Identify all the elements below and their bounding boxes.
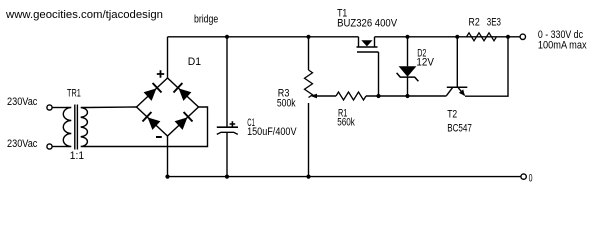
capacitor C1 top plate (217, 126, 238, 128)
svg-text:D1: D1 (188, 56, 201, 68)
terminal 230Vac bottom (47, 144, 52, 149)
T1 source rise (374, 37, 376, 47)
transformer core (74, 105, 76, 150)
svg-text:TR1: TR1 (67, 87, 81, 99)
svg-text:560k: 560k (337, 117, 355, 129)
capacitor C1 bottom plate (217, 132, 238, 134)
svg-text:3E3: 3E3 (487, 17, 501, 29)
transistor T2 (446, 37, 467, 96)
R3 wiper arrow (311, 94, 318, 99)
wire bridge bottom vertex to bottom rail (167, 136, 169, 177)
junction T2 base rail (455, 35, 459, 39)
transformer TR1 primary winding (63, 108, 71, 147)
terminal output positive (520, 34, 525, 39)
svg-text:150uF/400V: 150uF/400V (247, 126, 297, 138)
svg-text:0: 0 (529, 173, 533, 185)
svg-text:230Vac: 230Vac (7, 96, 38, 108)
svg-text:R2: R2 (469, 17, 480, 29)
junction gate node (376, 94, 380, 98)
svg-text:230Vac: 230Vac (7, 138, 38, 150)
T1 substrate arrow (361, 40, 372, 46)
svg-text:500k: 500k (277, 98, 296, 110)
svg-text:12V: 12V (416, 57, 434, 69)
zener D2 bottom lead (407, 77, 409, 96)
terminal 230Vac top (47, 105, 52, 110)
bridge diode D1d (bottom-right) (175, 112, 193, 130)
T1 gate lead (378, 52, 380, 96)
wire terminal to primary bottom (52, 146, 66, 148)
wire secondary bottom to under-bridge to right vertex riser (87, 107, 208, 147)
T2 base bar (447, 86, 468, 88)
wire secondary top to bridge left vertex (87, 106, 137, 109)
T2 base lead (456, 37, 458, 88)
bridge diode D1c (bottom-left) (143, 112, 161, 130)
junction C1 top rail (225, 35, 229, 39)
transformer TR1 secondary winding (81, 108, 88, 147)
junction R2 right rail (506, 35, 510, 39)
bridge diamond D1 outline (137, 78, 199, 136)
minus sign at bridge - output (156, 136, 162, 138)
junction bottom rail at bridge (165, 175, 169, 179)
svg-text:100mA max: 100mA max (538, 40, 587, 52)
bridge diode D1b (right-top) (174, 83, 192, 101)
resistor R2 body (467, 33, 497, 41)
wire R1 right to T2 collector diag (366, 95, 446, 97)
potentiometer R3 top lead (308, 37, 310, 70)
wire top rail right segment (source side) (375, 36, 520, 38)
junction D2 bottom node (405, 94, 409, 98)
svg-text:T2: T2 (447, 109, 457, 121)
wire top rail left segment (drain side) (168, 36, 359, 38)
T2 collector diagonal (446, 88, 452, 96)
capacitor C1 plus sign (230, 121, 236, 127)
T1 channel bar (357, 46, 378, 48)
junction R3 bottom rail (306, 175, 310, 179)
wire terminal to primary top (52, 107, 66, 109)
mosfet T1 (357, 37, 379, 96)
wire bridge top vertex to top rail (167, 37, 169, 78)
zener D2 body (397, 66, 419, 81)
wire bottom rail (168, 176, 521, 178)
capacitor C1 bottom lead (226, 133, 228, 177)
T1 drain drop (358, 37, 360, 47)
T2 emitter diagonal (458, 88, 464, 96)
svg-text:www.geocities.com/tjacodesign: www.geocities.com/tjacodesign (5, 9, 163, 21)
terminal output zero (521, 174, 526, 179)
junction C1 bottom rail (225, 175, 229, 179)
T1 gate bar (357, 51, 379, 53)
svg-text:1:1: 1:1 (70, 150, 84, 162)
svg-text:bridge: bridge (194, 14, 218, 26)
resistor R3 bottom lead (308, 103, 310, 177)
wire wiper to R1 (317, 95, 337, 97)
junction D2 top rail (405, 35, 409, 39)
capacitor C1 top lead (226, 37, 228, 127)
wire T2 emitter to output loop (465, 37, 508, 96)
bridge diode D1a (left-top) (144, 83, 162, 101)
zener D2 top lead (407, 37, 409, 67)
junction R3 top rail (306, 35, 310, 39)
plus sign at bridge + output (157, 70, 164, 77)
svg-text:BC547: BC547 (447, 123, 472, 135)
T2 emitter arrow (459, 89, 465, 96)
resistor R3 body (305, 70, 313, 98)
resistor R1 body (336, 92, 366, 100)
svg-text:BUZ326 400V: BUZ326 400V (337, 18, 398, 30)
